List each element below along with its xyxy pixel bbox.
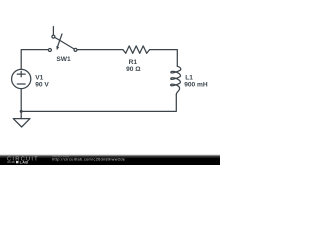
switch SW1 top throw stub [52, 27, 54, 35]
wire from L1 bottom down and left along bottom rail to ground node [21, 95, 176, 112]
switch SW1 top terminal circle [52, 35, 55, 38]
svg-text:SW1: SW1 [56, 56, 71, 63]
svg-text:900 mH: 900 mH [184, 82, 208, 89]
svg-text:http://circuitlab.com/c26dn89i: http://circuitlab.com/c26dn89iww2de [52, 157, 125, 161]
svg-text:R1: R1 [129, 59, 138, 66]
V1 minus sign [17, 83, 25, 85]
footer caption text [52, 154, 125, 161]
V1 plus sign [17, 73, 25, 75]
svg-text:90 Ω: 90 Ω [126, 66, 141, 73]
wire from R1 right and down to L1 top [150, 50, 178, 67]
junction node at V1 negative / ground / bottom rail [20, 110, 23, 113]
inductor L1 [171, 66, 181, 94]
CircuitLab logo [7, 157, 39, 165]
footer bar [0, 157, 220, 165]
wire from SW1 right terminal to R1 [77, 49, 123, 51]
voltage source V1 circle body [12, 69, 31, 88]
svg-text:LAB: LAB [20, 161, 29, 165]
svg-text:90 V: 90 V [35, 81, 49, 88]
ground [20, 111, 22, 118]
svg-text:L1: L1 [185, 74, 193, 81]
switch SW1 right terminal circle [74, 48, 77, 51]
resistor R1 [123, 46, 150, 53]
switch SW1 left terminal circle [48, 49, 51, 52]
wire from V1 negative terminal down to ground node [20, 89, 22, 112]
switch SW1 actuation arrow head [56, 46, 59, 50]
wire from V1 positive terminal up and right to SW1 left terminal [21, 50, 48, 70]
switch SW1 blade [55, 37, 74, 49]
switch SW1 actuation arrow shaft [58, 34, 62, 46]
